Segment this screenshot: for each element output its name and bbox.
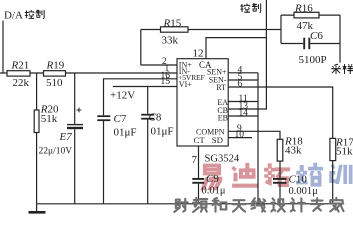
svg-text:22k: 22k	[13, 77, 30, 89]
label sample yang	[343, 64, 353, 74]
op-amp U1 SG3524 box	[177, 59, 228, 146]
label control-top kong	[240, 4, 250, 13]
wire pin5 SEN-	[228, 79, 258, 81]
svg-text:51k: 51k	[41, 113, 58, 125]
gray char he	[213, 198, 227, 212]
svg-text:+12V: +12V	[110, 90, 135, 102]
svg-text:510: 510	[46, 77, 63, 89]
pin numbers	[161, 57, 249, 140]
capacitor C8	[141, 114, 154, 116]
wire R16 C6 left bus	[280, 15, 282, 43]
wire pin6 RT to R17	[228, 87, 333, 138]
wire R18 to C10	[279, 161, 281, 178]
gray char jia	[330, 198, 344, 212]
resistor R16	[294, 12, 319, 18]
resistor R18	[277, 139, 283, 161]
capacitor C10	[273, 178, 287, 180]
gray char tian	[232, 200, 245, 211]
svg-text:10: 10	[235, 130, 245, 140]
wire sampling bus right	[339, 15, 341, 63]
svg-text:EB: EB	[218, 113, 228, 122]
label D/A kong	[25, 3, 353, 74]
label control-top zhi	[252, 3, 261, 13]
gray char pin	[193, 198, 207, 212]
svg-text:01μF: 01μF	[151, 126, 174, 138]
svg-text:5100P: 5100P	[299, 54, 327, 66]
wire pin14 EB	[228, 115, 258, 117]
node R21-R19 junction to R20	[36, 73, 38, 110]
label D/A zhi	[36, 10, 45, 19]
watermark char xun blue	[330, 165, 353, 184]
wire R16 row	[281, 14, 340, 16]
capacitor C6	[303, 38, 305, 50]
svg-text:C9: C9	[206, 173, 219, 185]
capacitor C9	[192, 178, 204, 180]
resistor R17	[330, 138, 336, 160]
svg-text:CT: CT	[194, 135, 206, 145]
wire C6 row right	[310, 43, 340, 45]
wire C9 bottom	[198, 184, 200, 204]
svg-text:12: 12	[193, 48, 204, 60]
resistor R21	[7, 71, 30, 76]
watermark char yi red	[201, 164, 222, 190]
svg-text:14: 14	[239, 109, 249, 119]
gray char she4	[271, 198, 284, 211]
wire R20 to ground rail	[36, 133, 38, 204]
svg-text:E7: E7	[59, 131, 73, 143]
wire pin4 SEN+	[228, 72, 258, 74]
wire R17 bottom	[332, 161, 334, 204]
svg-text:R16: R16	[294, 2, 313, 14]
wire D/A input vertical	[2, 21, 4, 73]
wire ground rail	[37, 203, 333, 205]
capacitor C7	[97, 115, 110, 117]
resistor R19	[44, 71, 66, 76]
svg-text:22μ/10V: 22μ/10V	[39, 147, 73, 157]
ground	[36, 204, 38, 212]
wire C10 bottom	[279, 184, 281, 204]
svg-text:C8: C8	[149, 112, 162, 124]
wire pin15 +12V	[113, 86, 177, 88]
wire control vertical to pin13 CB	[228, 0, 266, 109]
gray char ji	[291, 198, 305, 211]
wire R15 loop vertical	[140, 30, 142, 66]
watermark char di red	[232, 163, 258, 187]
svg-text:C7: C7	[114, 113, 127, 125]
svg-text:R21: R21	[11, 60, 30, 72]
wire C8 branch	[147, 87, 149, 114]
wire C6 row left	[281, 43, 303, 45]
WATERMARK	[201, 163, 352, 190]
svg-text:R19: R19	[46, 60, 65, 72]
wire pin16 +5VREF	[104, 79, 178, 116]
label sample cai	[331, 64, 341, 74]
svg-text:C6: C6	[310, 30, 323, 42]
svg-text:33k: 33k	[162, 35, 179, 47]
svg-text:0.01μ: 0.01μ	[202, 186, 226, 197]
svg-text:6: 6	[238, 80, 243, 90]
svg-text:15: 15	[161, 77, 171, 87]
GRAYTEXT	[174, 198, 343, 212]
gray char xian	[252, 198, 266, 211]
svg-text:C10: C10	[289, 174, 308, 186]
gray char zhuan	[311, 198, 324, 211]
resistor R15	[161, 27, 189, 32]
wire E7 branch top	[74, 73, 76, 124]
svg-text:D/A: D/A	[4, 10, 23, 22]
capacitor E7 electrolytic	[67, 124, 83, 126]
svg-text:SD: SD	[212, 135, 223, 145]
gray char she	[174, 199, 187, 212]
svg-text:0.001μ: 0.001μ	[289, 186, 319, 197]
wire C7 bottom	[103, 121, 105, 204]
wire E7 bottom	[74, 129, 76, 204]
wire pin10 SD stub	[228, 137, 252, 139]
svg-text:R15: R15	[163, 17, 182, 29]
wire common vertical A	[257, 73, 259, 204]
watermark char pei blue	[296, 163, 322, 186]
wire pin9 COMP to R18	[228, 131, 280, 139]
svg-text:51k: 51k	[336, 146, 353, 158]
svg-text:01μF: 01μF	[114, 127, 137, 139]
wire pin11 EA	[228, 101, 258, 103]
wire pin2 from R15 loop	[141, 64, 177, 66]
svg-text:43k: 43k	[285, 145, 302, 157]
wire pin12 CA up	[206, 38, 266, 59]
svg-text:SG3524: SG3524	[205, 154, 240, 165]
wire R15 row	[141, 29, 281, 31]
svg-text:7: 7	[192, 154, 198, 166]
svg-text:RT: RT	[216, 83, 226, 92]
watermark char tuo red	[265, 164, 290, 187]
wire main rail to pin 1 IN-	[0, 72, 177, 74]
svg-text:VI+: VI+	[179, 80, 192, 89]
wire pin7 CT to C9	[198, 146, 200, 178]
IC pin labels left	[178, 60, 228, 145]
resistor R20	[34, 110, 39, 133]
wire C8 bottom	[147, 120, 149, 204]
